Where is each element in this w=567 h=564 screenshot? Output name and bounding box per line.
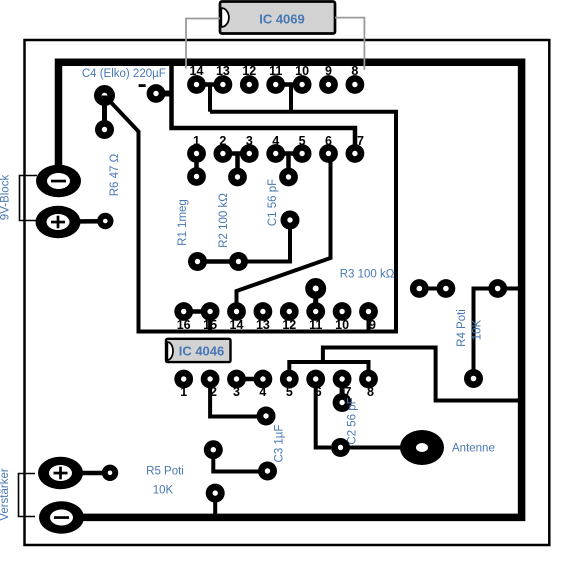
wire: link pins 14-13 — [197, 82, 223, 87]
wire: link R3 right pad to R4 pad — [419, 287, 446, 291]
capacitor C3 bottom pad — [258, 462, 277, 481]
wire: link IC4046 pins 16-15 — [184, 309, 210, 314]
wire: pin 2 to C3 top — [210, 379, 257, 417]
potentiometer R5 pad B — [206, 484, 225, 503]
pad IC4046 pin 12 — [280, 302, 299, 321]
antenna pad — [400, 430, 444, 465]
wire: pin1 to R1 — [194, 154, 199, 177]
wire: pins 5/8 to GND trace — [323, 348, 518, 401]
pad IC4046 pin 5 — [280, 370, 299, 389]
pad IC4069 pin 5 — [293, 144, 312, 163]
wire: pin 6 to IC4046 pin 14 — [237, 154, 331, 312]
amplifier output pad — [102, 465, 118, 481]
svg-text:9V-Block: 9V-Block — [0, 175, 12, 221]
svg-text:R6 47 Ω: R6 47 Ω — [109, 153, 121, 196]
resistor R1 top pad — [187, 167, 206, 186]
potentiometer R4 pad A — [437, 279, 456, 298]
wire: GND feed to pin 7 — [172, 62, 356, 145]
Verstaerker plus terminal — [38, 457, 83, 490]
pad IC4069 pin 13 — [214, 75, 233, 94]
pad IC4046 pin 15 — [201, 302, 220, 321]
Verstaerker minus terminal — [39, 501, 84, 534]
wire: link IC4046 pins 3-4 — [237, 377, 263, 382]
wire: link pins 11-10 — [276, 82, 302, 87]
svg-text:R1 1meg: R1 1meg — [177, 199, 189, 246]
pad IC4046 pin 13 — [254, 302, 273, 321]
potentiometer R5 pad A — [204, 440, 223, 459]
svg-text:10K: 10K — [153, 485, 174, 497]
wire: 9V+ to R6 bottom pad — [62, 219, 105, 224]
resistor R3 left pad — [305, 278, 326, 299]
pad IC4069 pin 8 — [346, 75, 365, 94]
wire: drop from 14/13 link to VDD trace — [208, 85, 212, 112]
9V battery minus terminal — [36, 165, 81, 198]
svg-text:R5 Poti: R5 Poti — [146, 466, 184, 478]
wire: pin 6 to C2 bottom — [316, 379, 331, 448]
wire: pin 7 to C2 top — [340, 379, 345, 403]
capacitor C3 top pad — [257, 407, 276, 426]
wire: C2 bottom to antenna — [341, 446, 406, 450]
capacitor C1 bottom pad — [281, 211, 300, 230]
wire: pin 15 drop to VDD trace — [208, 312, 212, 332]
pad IC4069 pin 1 — [187, 144, 206, 163]
capacitor C2 bottom pad — [331, 438, 350, 457]
pad IC4046 pin 10 — [333, 302, 352, 321]
pad IC4046 pin 1 — [174, 370, 193, 389]
svg-text:R4 Poti: R4 Poti — [456, 309, 468, 347]
potentiometer R4 bottom pad — [464, 369, 483, 388]
wire: VDD loop trace around IC4069 area to C4 — [105, 96, 397, 332]
svg-text:C1 56 pF: C1 56 pF — [267, 179, 279, 226]
IC4069 pin numbers bottom row — [193, 134, 364, 148]
wire: R4 wiper to GND trace — [474, 289, 519, 379]
leader line left (IC4069 to pin 14) — [186, 19, 220, 69]
IC 4046 body — [166, 339, 231, 362]
leader line right (IC4069 to pin 8) — [335, 18, 364, 70]
pad IC4046 pin 3 — [227, 370, 246, 389]
wire: R5 pad to C3 bottom — [213, 450, 267, 472]
pad IC4046 pin 4 — [254, 370, 273, 389]
IC4046 pin numbers bottom row — [180, 385, 374, 399]
9V battery plus terminal — [36, 206, 81, 239]
capacitor C4 pad + — [94, 85, 115, 106]
wire: jumper pins 5-8 — [289, 362, 368, 379]
pad IC4046 pin 11 — [306, 302, 325, 321]
C4 polarity minus mark — [139, 84, 146, 87]
9V-Block bracket — [20, 176, 38, 221]
IC4046 pin numbers top row — [177, 318, 376, 332]
pad IC4069 pin 2 — [214, 144, 233, 163]
pad IC4069 pin 12 — [240, 75, 259, 94]
resistor R6 top pad — [95, 120, 114, 139]
wire: C1 bottom to R1/R2 bottom rail — [239, 220, 291, 262]
svg-text:10K: 10K — [472, 319, 484, 340]
resistor R2 top pad — [228, 168, 247, 187]
svg-text:Verstärker: Verstärker — [0, 468, 11, 521]
wire: pin 9 drop to VDD trace — [367, 312, 371, 332]
svg-text:C2 56 pF: C2 56 pF — [346, 397, 358, 444]
svg-text:IC 4046: IC 4046 — [179, 344, 225, 359]
wire: link R1 bottom to R2 bottom — [198, 259, 239, 264]
resistor R3 right pad — [410, 279, 429, 298]
wire: drop 4/5 link to C1 — [286, 154, 291, 178]
wire: link pins 4-5 — [276, 151, 302, 156]
wire: drop 2/3 link to R2 — [235, 154, 240, 178]
ground power trace loop (thick) — [59, 62, 522, 517]
pad IC4046 pin 6 — [306, 370, 325, 389]
svg-text:R2 100 kΩ: R2 100 kΩ — [218, 193, 230, 248]
pad IC4046 pin 2 — [201, 370, 220, 389]
wire: R5 pad B to GND trace — [213, 493, 217, 516]
pad IC4046 pin 7 — [333, 370, 352, 389]
svg-text:R3 100 kΩ: R3 100 kΩ — [340, 269, 395, 281]
svg-text:C4 (Elko) 220µF: C4 (Elko) 220µF — [82, 68, 166, 80]
wire: R3 left pad to pin 11 — [313, 289, 318, 312]
pad IC4046 pin 14 — [227, 302, 246, 321]
IC 4069 body — [220, 2, 335, 34]
wire: C4+ to R6 — [102, 96, 107, 130]
capacitor C2 top pad — [333, 393, 352, 412]
svg-text:Antenne: Antenne — [452, 443, 495, 455]
pad IC4069 pin 9 — [319, 75, 338, 94]
wire: stub from 11/10 link to VDD trace — [289, 85, 293, 114]
Verstaerker bracket — [19, 474, 36, 517]
IC4069 pin numbers top row — [190, 64, 359, 78]
pad IC4069 pin 10 — [293, 75, 312, 94]
pad IC4069 pin 11 — [266, 75, 285, 94]
pad IC4069 pin 6 — [319, 144, 338, 163]
capacitor C1 top pad — [279, 168, 298, 187]
wire: link pins 2-3 — [223, 151, 249, 156]
resistor R2 bottom pad — [229, 252, 248, 271]
pad IC4069 pin 14 — [187, 75, 206, 94]
resistor R6 bottom pad — [97, 213, 113, 229]
pad IC4069 pin 4 — [266, 144, 285, 163]
pad IC4046 pin 9 — [359, 302, 378, 321]
pad IC4069 pin 3 — [240, 144, 259, 163]
wire: C4 minus stub — [154, 91, 172, 97]
wire: Verstaerker plus to pad — [61, 471, 111, 476]
pad IC4046 pin 8 — [359, 370, 378, 389]
pad IC4046 pin 16 — [174, 302, 193, 321]
svg-text:C3 1µF: C3 1µF — [274, 425, 286, 463]
potentiometer R4 pad B — [488, 279, 507, 298]
pad IC4069 pin 7 — [346, 144, 365, 163]
resistor R1 bottom pad — [188, 252, 207, 271]
capacitor C4 pad - — [147, 84, 166, 103]
svg-text:IC 4069: IC 4069 — [259, 12, 305, 27]
